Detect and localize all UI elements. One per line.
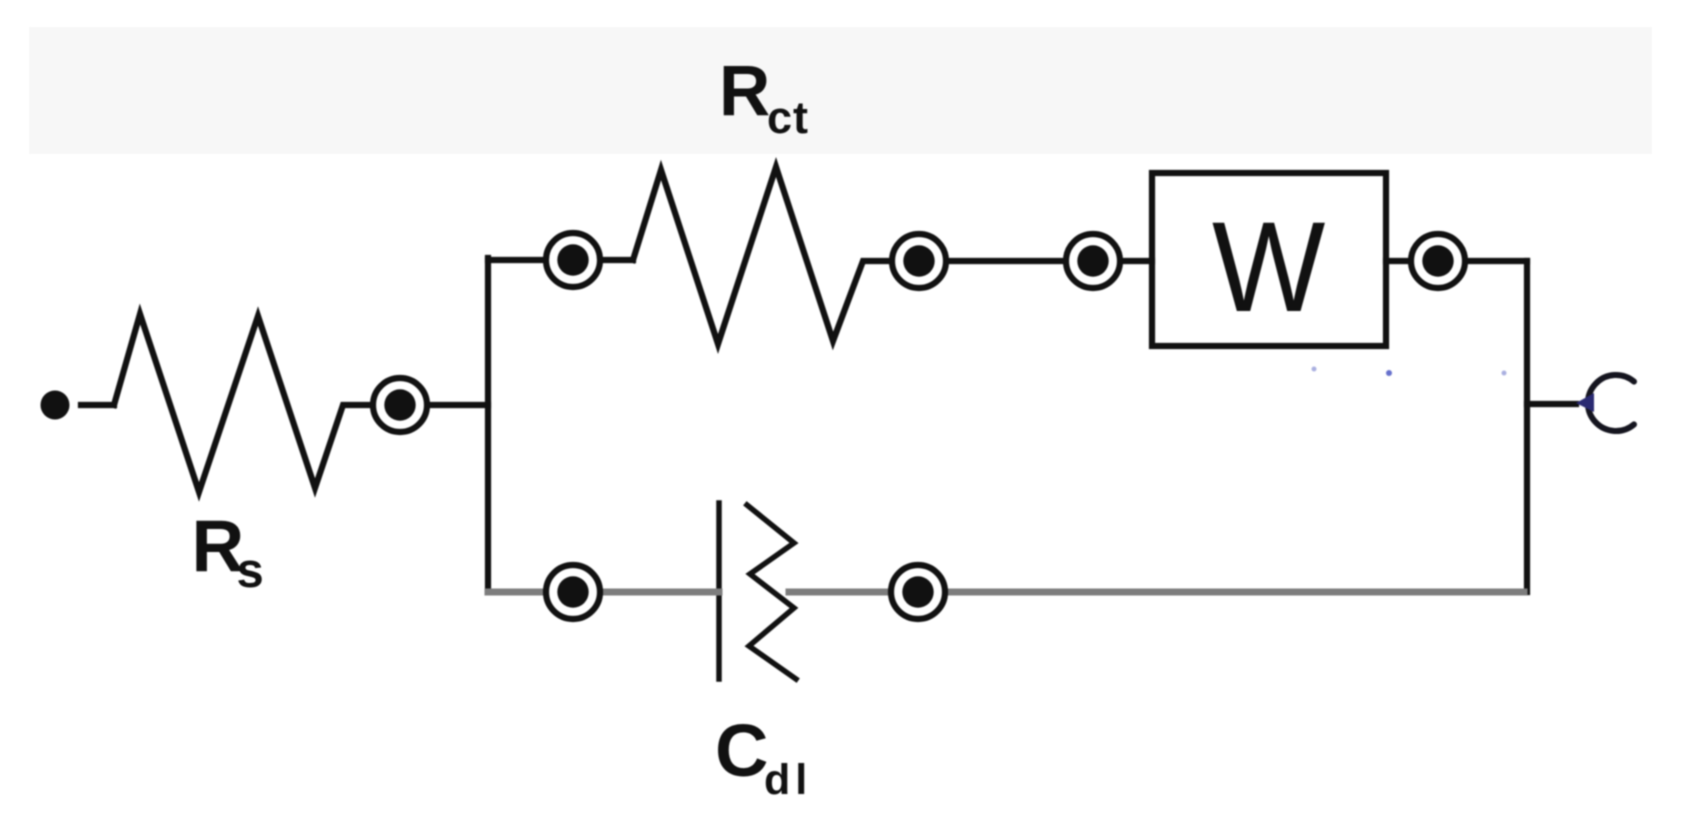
svg-text:C: C (715, 709, 768, 792)
svg-text:dl: dl (764, 756, 812, 804)
svg-text:ct: ct (767, 92, 809, 143)
svg-text:W: W (1212, 197, 1325, 339)
svg-text:s: s (237, 544, 264, 598)
svg-text:R: R (719, 52, 770, 131)
